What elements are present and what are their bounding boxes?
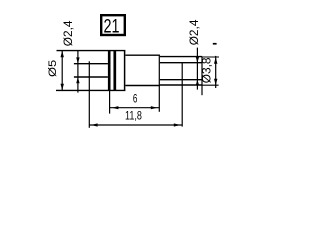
arrow d2,4 right bottom (outside, pointing up) xyxy=(196,80,199,86)
dimension line diameter 2,4 left xyxy=(77,51,79,93)
arrow 11,8 left xyxy=(91,123,98,126)
arrow d5 top xyxy=(61,51,64,58)
flange right edge xyxy=(124,51,126,91)
diameter 3,8 top extension xyxy=(202,56,219,58)
svg-text:Ø5: Ø5 xyxy=(46,59,59,77)
pin end face xyxy=(201,57,203,96)
dimension line diameter 5 xyxy=(61,51,63,91)
svg-text:Ø2,4: Ø2,4 xyxy=(61,20,75,46)
pin bottom inner line xyxy=(160,79,202,81)
flange bottom edge + extension line xyxy=(56,89,125,91)
dimension line diameter 2,4 right xyxy=(196,48,198,90)
left lead top edge + extension xyxy=(74,63,108,65)
arrow d3,8 top xyxy=(214,57,217,64)
svg-text:21: 21 xyxy=(104,15,120,36)
sleeve bottom edge xyxy=(160,84,202,86)
pin top inner line xyxy=(160,62,202,64)
svg-text:Ø2,4: Ø2,4 xyxy=(187,19,201,45)
arrow d3,8 bottom xyxy=(214,79,217,86)
diameter 3,8 bottom extension xyxy=(202,84,219,86)
arrow d2,4 left bottom (outside, pointing up) xyxy=(76,77,79,83)
arrow d2,4 left top (outside, pointing down) xyxy=(76,57,79,63)
arrow d2,4 right top (outside, pointing down) xyxy=(196,57,199,63)
svg-text:11,8: 11,8 xyxy=(125,109,142,123)
flange left extension down for 6 xyxy=(109,91,111,114)
left lead end face + extension for 11,8 xyxy=(88,61,90,128)
arrow 6 left xyxy=(112,106,119,109)
flange face line 1 (thick) xyxy=(108,50,111,91)
svg-text:Ø3,8: Ø3,8 xyxy=(199,57,213,83)
left lead bottom edge + extension xyxy=(74,76,108,78)
stray dash mark xyxy=(213,43,217,45)
body bottom edge xyxy=(125,85,159,87)
flange face line 2 (thick) xyxy=(113,50,116,91)
body top edge xyxy=(125,54,159,56)
figure number box 21 xyxy=(101,15,125,35)
sleeve top edge xyxy=(160,56,202,58)
dimension line diameter 3,8 xyxy=(215,56,217,88)
body right face + extension for 6 xyxy=(158,55,160,112)
dimension line 11,8 xyxy=(89,124,182,126)
dimension line 6 xyxy=(110,107,160,109)
arrow 11,8 right xyxy=(174,123,181,126)
flange top edge + extension line xyxy=(57,50,126,52)
sleeve/pin junction + extension for 11,8 xyxy=(181,63,183,127)
arrow d5 bottom xyxy=(61,84,64,91)
svg-text:6: 6 xyxy=(133,93,138,106)
arrow 6 right xyxy=(151,106,158,109)
